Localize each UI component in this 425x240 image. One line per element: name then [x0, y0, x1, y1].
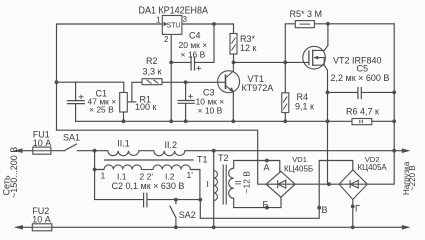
resistor R2 body: [142, 79, 162, 85]
wire VD1 to VD2: [295, 183, 339, 185]
resistor R6 power marks: [360, 120, 363, 123]
node dot SA2 bottom: [174, 225, 178, 229]
svg-text:2,2 мк × 600 В: 2,2 мк × 600 В: [331, 73, 390, 83]
resistor R3 leads: [233, 24, 235, 62]
wire T2 secondary bottom to B terminal: [234, 197, 281, 207]
node dot right rail output: [392, 149, 396, 153]
wire VT2 drain: [327, 24, 329, 46]
node V terminal: [317, 206, 321, 210]
svg-text:12 к: 12 к: [240, 43, 257, 53]
node A terminal: [265, 159, 269, 163]
resistor R5 power mark: [300, 23, 311, 25]
svg-text:× 10 В: × 10 В: [198, 106, 223, 116]
node dot R4 top: [283, 61, 287, 65]
svg-text:Т2: Т2: [218, 153, 229, 163]
svg-text:А: А: [264, 163, 270, 173]
svg-text:3,3 к: 3,3 к: [143, 67, 162, 77]
node dot R3 collector: [232, 61, 236, 65]
svg-text:~150...200 В: ~150...200 В: [9, 147, 19, 198]
arrow mains bottom left: [14, 225, 23, 230]
wire y130 line to VD1 left: [57, 130, 267, 184]
node dot R6 right: [392, 119, 396, 123]
transformer T1 winding I: [104, 165, 190, 170]
node dot drain top: [326, 22, 330, 26]
svg-text:R5* 3 М: R5* 3 М: [290, 9, 323, 19]
resistor R1 bottom lead: [123, 112, 125, 121]
svg-text:Г: Г: [355, 204, 360, 214]
node dot C5 right: [392, 91, 396, 95]
transformer T1 winding II: [108, 151, 185, 156]
wire T1 II.2 to output arrow: [185, 150, 404, 152]
transformer T2 core: [223, 165, 226, 205]
svg-text:R4: R4: [297, 92, 309, 102]
node G terminal: [351, 205, 355, 209]
wire VT2 source vertical: [327, 70, 329, 184]
svg-text:I.2: I.2: [165, 172, 175, 182]
resistor R1 body: [120, 93, 128, 113]
wire mid rail: [76, 120, 395, 122]
capacitor C4 plates: [191, 56, 194, 70]
node dot left rail y82: [55, 80, 59, 84]
switch SA1 blade: [64, 144, 76, 151]
svg-text:100 к: 100 к: [135, 102, 157, 112]
wire right rail: [367, 24, 394, 184]
capacitor C3 leads: [185, 82, 187, 121]
svg-text:2: 2: [164, 35, 169, 44]
svg-text:I.1: I.1: [117, 172, 127, 182]
wire C2 loop left: [95, 151, 201, 200]
wire R1 wiper to R2: [128, 82, 142, 102]
resistor R4 leads: [284, 62, 286, 121]
capacitor C1 leads: [75, 82, 77, 121]
node dot C3 bottom: [184, 119, 188, 123]
svg-text:× 25 В: × 25 В: [89, 105, 114, 115]
svg-text:II.2: II.2: [165, 140, 178, 150]
wire DA1 pin2 vertical: [170, 34, 172, 121]
wire T2 secondary top to A to VD1: [234, 161, 280, 172]
fuse FU1 line: [33, 150, 51, 152]
svg-text:1': 1': [187, 170, 194, 180]
bridge VD1: [266, 171, 295, 197]
transistor VT1 emitter lead: [232, 92, 234, 121]
node dot source mid rail: [326, 119, 330, 123]
transformer T2 primary winding: [214, 171, 218, 201]
transistor VT1: [218, 62, 240, 92]
node dot pin2 C4: [169, 61, 173, 65]
svg-text:С2 0,1 мк × 630 В: С2 0,1 мк × 630 В: [112, 181, 185, 191]
resistor R4 body: [282, 93, 289, 113]
node dot SA1 T1: [93, 149, 97, 153]
wire node y62 to gate: [234, 61, 309, 63]
svg-text:DA1 КР142ЕН8А: DA1 КР142ЕН8А: [139, 6, 209, 17]
arrow mains top left: [14, 148, 23, 153]
node dot C5 left: [326, 91, 330, 95]
transistor VT1 emitter arrow: [229, 87, 234, 92]
fuse FU2 line: [32, 226, 52, 228]
resistor R3 power marks: [232, 38, 236, 51]
transistor VT2 body arrow: [313, 56, 318, 60]
svg-text:20 мк ×: 20 мк ×: [179, 40, 208, 50]
capacitor C4 wires: [171, 24, 214, 62]
wire VD2 bottom G lead: [352, 200, 354, 228]
svg-text:10 А: 10 А: [33, 138, 52, 148]
capacitor C1 plus: [79, 95, 84, 100]
wire DA1 pin3 to R3: [182, 23, 234, 25]
wire R2 to VT1 base: [162, 81, 226, 83]
capacitor C3 plus: [188, 94, 193, 99]
wire R5 right to right rail: [314, 23, 394, 25]
capacitor C5 plates: [358, 87, 361, 99]
svg-text:II.1: II.1: [117, 139, 130, 149]
node dot C2 right: [198, 198, 202, 202]
node dot VT1 emitter bottom: [231, 119, 235, 123]
arrow load top right: [402, 148, 411, 153]
svg-text:STU: STU: [167, 20, 181, 29]
resistor R5 left lead: [285, 24, 295, 63]
svg-text:I: I: [207, 179, 209, 189]
resistor R4 power marks: [283, 97, 287, 110]
capacitor C3 plates: [178, 101, 195, 104]
node dot R4 bottom: [283, 119, 287, 123]
svg-text:2 2': 2 2': [140, 172, 154, 182]
node dot T2 bottom rail: [212, 225, 216, 229]
arrow load bottom right: [402, 225, 411, 230]
svg-text:КЦ405А: КЦ405А: [358, 163, 388, 172]
svg-text:КТ972А: КТ972А: [242, 83, 274, 93]
wire base rail y82: [57, 82, 124, 92]
node dot pin2 bottom: [169, 119, 173, 123]
svg-text:× 16 В: × 16 В: [181, 49, 206, 59]
wire T1 winding I leads: [95, 170, 200, 200]
svg-text:~220 В: ~220 В: [408, 165, 417, 191]
capacitor C2 plates: [144, 193, 147, 208]
bridge VD1 diode triangle: [278, 180, 286, 188]
node dot T1 winding I left: [93, 168, 97, 172]
bridge VD2: [339, 170, 367, 200]
svg-text:SA2: SA2: [179, 210, 196, 220]
wire B loop: [200, 161, 352, 219]
svg-text:10 А: 10 А: [32, 215, 51, 225]
switch SA2: [170, 200, 176, 228]
wire top-left rail: [57, 24, 163, 130]
regulator DA1 pin1 arrow mark: [164, 22, 168, 26]
svg-text:SA1: SA1: [63, 133, 80, 143]
svg-text:9,1 к: 9,1 к: [295, 102, 314, 112]
node dot source VD wire: [327, 182, 331, 186]
svg-text:Т1: Т1: [197, 155, 208, 165]
resistor R5 body: [295, 21, 314, 28]
transformer T1 core: [104, 159, 194, 161]
capacitor C5 wires: [328, 91, 395, 93]
bridge VD2 diode triangle: [350, 180, 358, 188]
fuse FU1: [33, 147, 51, 154]
node dot SA2 top: [174, 198, 178, 202]
svg-text:~12 В: ~12 В: [242, 171, 252, 194]
wire T2 primary vertical: [213, 151, 215, 228]
svg-text:3: 3: [183, 15, 188, 24]
capacitor C4 plus: [196, 66, 201, 71]
transistor VT2: [303, 46, 328, 71]
svg-text:1: 1: [101, 171, 106, 181]
svg-text:1: 1: [156, 16, 161, 25]
node dot R1 bottom: [122, 119, 126, 123]
wire bottom rail: [16, 226, 404, 228]
svg-text:В: В: [322, 205, 328, 215]
resistor R3 body: [230, 34, 237, 55]
svg-text:R6 4,7 к: R6 4,7 к: [346, 107, 379, 117]
node dot G bottom rail: [351, 225, 355, 229]
node dot C4 top rail: [212, 22, 216, 26]
svg-text:R2: R2: [146, 56, 158, 66]
regulator DA1 box: [162, 16, 182, 35]
svg-text:КЦ405Б: КЦ405Б: [284, 164, 313, 173]
node dot C3 top: [184, 80, 188, 84]
node dot T2 top: [212, 149, 216, 153]
resistor R6 body: [352, 119, 372, 125]
transformer T2 secondary winding: [229, 168, 234, 198]
resistor R2 power marks: [147, 80, 159, 84]
svg-text:VD1: VD1: [292, 155, 307, 164]
wire mains input top: [16, 150, 108, 152]
svg-text:Б: Б: [263, 200, 269, 210]
capacitor C1 plates: [67, 101, 85, 104]
node B terminal: [265, 206, 269, 210]
fuse FU2: [32, 224, 52, 231]
